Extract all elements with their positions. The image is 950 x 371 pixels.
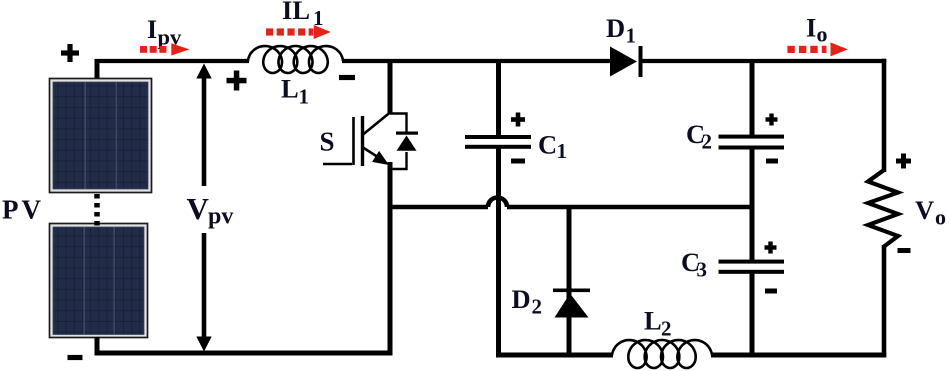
svg-text:L: L (644, 306, 662, 336)
dotted series link between PV modules (94, 194, 100, 226)
plus sign (load) (896, 154, 911, 169)
wire: switch emitter to bottom-left bus (388, 162, 393, 356)
node: Vpv sense arrow (double headed) (196, 64, 211, 352)
wire: middle bus (emitter node to C2/C3 midpoint) with hop over C1 branch (390, 198, 754, 208)
wire: output right riser (bottom) (882, 245, 887, 357)
svg-text:1: 1 (626, 24, 637, 48)
IGBT anti-parallel diode (390, 114, 418, 170)
wire: switch branch drop from top bus (388, 61, 393, 114)
wire: PV bottom lead (95, 337, 100, 355)
diode D2 (553, 289, 590, 318)
wire: bottom-left bus (PV return) (95, 351, 393, 356)
svg-text:D: D (512, 284, 531, 314)
wire: C2 to middle bus to C3 (750, 148, 755, 260)
plus sign (C3) (765, 242, 777, 254)
capacitor C2 (719, 135, 785, 150)
svg-text:I: I (806, 13, 816, 43)
PV module 2 (bottom solar panel) (50, 224, 148, 338)
diode D1 (610, 46, 643, 77)
svg-text:I: I (147, 15, 157, 44)
plus sign (C1) (511, 113, 525, 127)
inductor L1 (248, 46, 343, 73)
wire: top bus from PV to L1 (95, 59, 250, 63)
svg-text:1: 1 (299, 85, 310, 109)
svg-text:C: C (538, 130, 557, 160)
svg-text:2: 2 (661, 317, 672, 341)
wire: top bus from L1 to D1 (342, 59, 611, 63)
capacitor C3 (719, 260, 785, 274)
svg-text:3: 3 (697, 258, 708, 282)
inductor L2 (612, 340, 712, 368)
minus sign (L1 right) (339, 75, 355, 80)
wire: bottom-right bus from C1 to L2 (496, 353, 613, 358)
wire: bottom-right bus from L2 to output corner (711, 353, 886, 358)
plus sign (L1 left) (227, 71, 247, 91)
current arrow IL1 (red dashed) (266, 25, 331, 39)
resistor load (868, 170, 898, 247)
IGBT switch S (323, 113, 390, 167)
minus sign (PV negative terminal) (68, 355, 83, 360)
svg-text:2: 2 (702, 130, 713, 154)
wire: C1 lower lead through hop to bottom bus (496, 148, 501, 357)
wire: output right riser (top) (882, 59, 887, 172)
plus sign (C2) (766, 114, 778, 126)
PV module 1 (top solar panel) (50, 79, 152, 193)
minus sign (C1) (511, 159, 525, 164)
wire: C2/C3 branch from top bus (750, 61, 755, 135)
svg-text:o: o (935, 205, 946, 230)
svg-text:pv: pv (208, 204, 233, 230)
plus sign (PV positive terminal) (61, 44, 79, 62)
minus sign (C3) (765, 289, 777, 294)
svg-text:D: D (606, 13, 625, 43)
svg-text:S: S (320, 127, 335, 157)
minus sign (load) (898, 248, 911, 253)
minus sign (C2) (766, 159, 778, 164)
wire: PV top lead (95, 59, 100, 78)
wire: D2 branch from middle bus (567, 207, 572, 357)
svg-text:L: L (281, 74, 299, 104)
svg-text:o: o (817, 22, 828, 47)
svg-text:IL: IL (282, 0, 310, 25)
svg-text:2: 2 (532, 295, 543, 319)
wire: C1 branch from top bus (496, 61, 501, 136)
current arrow Io (red dashed) (787, 42, 848, 56)
svg-text:1: 1 (557, 139, 568, 163)
capacitor C1 (465, 135, 531, 149)
wire: C3 lower lead to bottom bus (750, 272, 755, 357)
svg-text:V: V (915, 195, 934, 225)
svg-text:V: V (187, 191, 210, 226)
current arrow Ipv (red dashed) (140, 43, 190, 55)
wire: top bus from D1 to output corner (642, 59, 886, 63)
svg-text:PV: PV (2, 195, 44, 225)
